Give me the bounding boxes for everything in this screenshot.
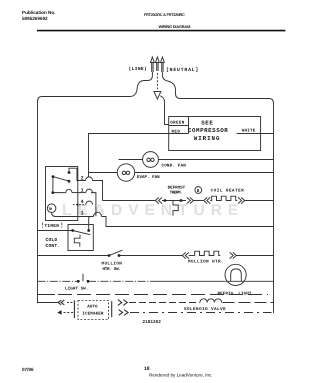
wire: green wire to compressor box xyxy=(160,96,169,125)
cond fan motor xyxy=(143,152,159,168)
cond fan row wire xyxy=(119,159,274,161)
wire xyxy=(189,255,193,257)
solid stub from border xyxy=(38,294,56,296)
connector B xyxy=(195,187,202,194)
wire to right border xyxy=(236,255,273,257)
connector chevrons left (large) xyxy=(58,300,64,305)
svg-text:COND. FAN: COND. FAN xyxy=(162,164,187,169)
svg-text:WHITE: WHITE xyxy=(242,129,256,134)
defrost timer assembly xyxy=(46,167,274,227)
icemaker row 2 (ground) xyxy=(57,310,271,316)
terminal 1 outer bump xyxy=(86,189,93,192)
svg-text:3: 3 xyxy=(81,211,84,217)
ground arrow xyxy=(154,92,161,100)
timer label dashed box xyxy=(43,223,62,228)
wire: white wire to right border xyxy=(237,133,274,135)
wire: line prong to left rail and left border xyxy=(38,72,153,303)
cold control xyxy=(38,217,94,251)
connector chevrons right xyxy=(230,252,237,258)
dashed run to right xyxy=(58,294,268,296)
mullion heater row xyxy=(38,250,274,258)
connector chevrons right xyxy=(187,197,194,203)
wire cold control up to row 3 xyxy=(89,217,91,230)
wire: ground dashed lead xyxy=(156,73,158,91)
rail to connector xyxy=(119,255,182,257)
terminal 4 dashed stub xyxy=(73,204,86,206)
wire row 3 to right border rail xyxy=(102,217,274,227)
light switch dots xyxy=(77,280,90,283)
svg-text:CONT.: CONT. xyxy=(46,243,61,249)
icemaker row 1 / solenoid valve xyxy=(38,299,274,320)
icemaker feed row (upper dashed) xyxy=(38,294,269,296)
wire heater to right border xyxy=(245,200,274,202)
svg-text:Publication No.: Publication No. xyxy=(22,10,55,15)
connector chevrons right of heater xyxy=(238,197,245,203)
svg-text:SOLENOID VALVE: SOLENOID VALVE xyxy=(184,307,226,312)
svg-text:SEE: SEE xyxy=(201,119,213,126)
plug prong (ground, middle) xyxy=(156,57,160,71)
icemaker connector bar left xyxy=(73,300,75,318)
ground arrow left xyxy=(57,310,61,314)
svg-text:AUTO: AUTO xyxy=(87,304,98,309)
svg-text:4: 4 xyxy=(81,199,84,205)
timer box xyxy=(46,167,78,221)
defrost heater row xyxy=(103,187,274,216)
dash-dot rail left xyxy=(38,280,79,282)
thermostat TH xyxy=(47,204,56,213)
compressor box U1 xyxy=(169,117,261,151)
svg-text:Rendered by LeadVenture, Inc.: Rendered by LeadVenture, Inc. xyxy=(149,373,213,378)
refrig light bulb xyxy=(225,264,246,285)
svg-text:COMPRESSOR: COMPRESSOR xyxy=(188,127,228,134)
wire between terminal 1 bumps xyxy=(72,192,86,194)
wire into defrost thermostat xyxy=(103,200,156,202)
dash-dot run to right border corner xyxy=(130,312,272,314)
svg-text:LIGHT SW.: LIGHT SW. xyxy=(65,287,89,292)
auto icemaker dashed box xyxy=(78,301,109,320)
mullion heater element xyxy=(193,251,220,255)
dash to icemaker xyxy=(64,312,75,314)
svg-text:5995269692: 5995269692 xyxy=(22,16,48,21)
svg-text:DEFROST: DEFROST xyxy=(168,185,186,190)
connector chevrons right row2 xyxy=(119,310,129,316)
svg-text:MULLION: MULLION xyxy=(102,261,123,266)
svg-text:WIRING DIAGRAM: WIRING DIAGRAM xyxy=(159,24,191,29)
svg-text:MULLION HTR.: MULLION HTR. xyxy=(188,260,224,265)
terminal 2 bump xyxy=(86,177,93,181)
svg-text:18: 18 xyxy=(144,366,150,372)
wire TH to row 3 xyxy=(52,213,94,217)
svg-text:TH: TH xyxy=(48,207,52,212)
timer staircase to terminal 2 xyxy=(69,168,86,180)
dashed run to solenoid xyxy=(129,302,200,304)
timer internal wire xyxy=(53,177,66,193)
cold control box xyxy=(68,225,93,251)
lamp chord and wire to right border xyxy=(224,280,273,282)
svg-text:RED: RED xyxy=(172,130,181,135)
dashed run to right border xyxy=(223,302,274,304)
light switch blade xyxy=(82,274,84,282)
svg-text:1: 1 xyxy=(81,187,84,193)
svg-text:WIRING: WIRING xyxy=(194,135,221,142)
svg-text:COIL HEATER: COIL HEATER xyxy=(211,188,245,193)
svg-text:EVAP. FAN: EVAP. FAN xyxy=(137,175,160,180)
svg-text:2: 2 xyxy=(81,175,84,181)
evap fan row wire xyxy=(89,172,274,174)
green/red label partition xyxy=(169,116,189,134)
wire: red wire to timer terminal 2 xyxy=(89,134,189,178)
icemaker connector bar right xyxy=(111,301,113,317)
svg-text:GREEN: GREEN xyxy=(170,121,184,126)
wire to coil heater xyxy=(193,200,203,202)
terminal 1 inner bump xyxy=(66,189,72,192)
defrost switch dots xyxy=(164,199,183,202)
svg-text:2181262: 2181262 xyxy=(143,320,162,325)
dash to icemaker xyxy=(67,302,74,304)
cold control blade xyxy=(73,231,91,235)
refrigerator light row xyxy=(38,264,274,285)
mullion heater switch blade xyxy=(109,250,123,255)
dash-dot rail to lamp xyxy=(88,280,152,282)
evap fan motor xyxy=(117,164,134,181)
cold control dots xyxy=(71,229,90,232)
svg-text:[NEUTRAL]: [NEUTRAL] xyxy=(166,67,199,73)
solenoid valve coil xyxy=(200,299,222,303)
svg-text:ICEMAKER: ICEMAKER xyxy=(82,312,104,317)
svg-text:HTR. SW.: HTR. SW. xyxy=(103,267,121,272)
defrost thermostat body xyxy=(173,201,178,216)
terminal 3 bump xyxy=(94,212,102,216)
connector chevrons left xyxy=(155,197,162,203)
header rule xyxy=(37,30,285,32)
connector chevrons right row1 xyxy=(118,300,128,306)
svg-text:REFRIG. LIGHT: REFRIG. LIGHT xyxy=(218,291,252,296)
wire from left border to cold control xyxy=(38,230,73,232)
plug prong (line) xyxy=(151,57,155,72)
wire terminal 1 down to row 3 xyxy=(91,193,96,217)
bulb filament xyxy=(231,269,242,281)
svg-text:TIMER: TIMER xyxy=(45,224,60,229)
svg-text:THERM.: THERM. xyxy=(170,191,183,196)
svg-text:(LINE): (LINE) xyxy=(129,66,148,72)
rail from left border xyxy=(38,255,110,257)
timer contact blade xyxy=(53,177,69,182)
defrost thermostat switch xyxy=(162,200,186,202)
terminal 4 bump xyxy=(86,201,93,204)
timer contact dots xyxy=(51,171,78,206)
plug prong (neutral) xyxy=(161,57,165,72)
connector chevrons left xyxy=(182,252,189,258)
rail from border corner xyxy=(38,302,58,304)
svg-text:07/96: 07/96 xyxy=(22,367,34,372)
svg-text:FRT20GRC & FRT22NRC: FRT20GRC & FRT22NRC xyxy=(144,13,185,17)
wire terminal 2 to defrost row xyxy=(93,181,103,201)
svg-text:COLD: COLD xyxy=(46,237,58,243)
mullion switch dots xyxy=(108,254,121,257)
connector chevrons left of heater xyxy=(204,197,211,203)
cold control bellows xyxy=(74,235,80,247)
coil heater element xyxy=(210,196,237,200)
wire: neutral prong to right rail and right border xyxy=(162,72,273,313)
